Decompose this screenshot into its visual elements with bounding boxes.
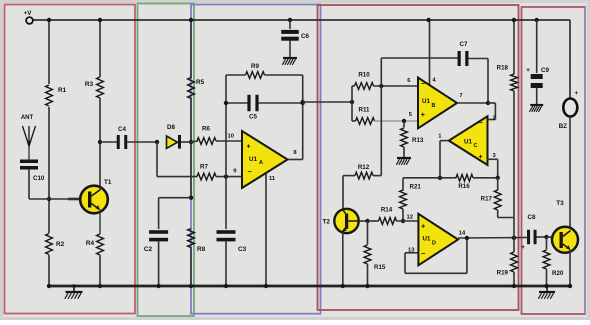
svg-text:10: 10 (228, 134, 234, 140)
svg-text:B: B (432, 103, 436, 109)
svg-text:R13: R13 (412, 137, 424, 144)
svg-text:+V: +V (24, 10, 33, 17)
svg-text:T3: T3 (556, 200, 564, 207)
svg-text:R20: R20 (552, 270, 564, 277)
svg-text:+: + (421, 224, 425, 231)
svg-text:C10: C10 (33, 175, 45, 182)
svg-text:A: A (259, 160, 263, 166)
svg-text:R7: R7 (200, 164, 208, 171)
svg-text:C: C (474, 143, 478, 149)
svg-text:ANT: ANT (21, 115, 34, 121)
svg-text:R8: R8 (197, 246, 206, 253)
svg-text:R1: R1 (58, 87, 67, 94)
svg-text:D: D (432, 241, 436, 247)
svg-text:+: + (526, 67, 530, 74)
svg-text:12: 12 (407, 215, 413, 221)
svg-text:C5: C5 (249, 114, 257, 121)
svg-text:T1: T1 (104, 179, 112, 186)
svg-text:C7: C7 (460, 41, 468, 48)
svg-text:C4: C4 (118, 126, 126, 133)
svg-text:U1: U1 (249, 156, 257, 163)
svg-text:+: + (575, 90, 579, 97)
svg-text:−: − (421, 81, 425, 88)
svg-text:BZ: BZ (559, 123, 567, 130)
svg-text:R6: R6 (202, 126, 210, 133)
svg-text:R3: R3 (85, 81, 94, 88)
svg-text:R5: R5 (196, 79, 205, 86)
svg-text:R19: R19 (497, 270, 509, 277)
svg-text:R2: R2 (56, 241, 65, 248)
svg-text:R18: R18 (497, 65, 509, 72)
svg-text:+: + (521, 244, 525, 251)
svg-text:U1: U1 (422, 98, 430, 105)
svg-text:R21: R21 (410, 184, 422, 191)
svg-text:+: + (421, 112, 425, 119)
svg-text:R17: R17 (481, 196, 493, 203)
svg-text:D8: D8 (167, 124, 175, 131)
svg-text:11: 11 (269, 176, 276, 182)
svg-text:R14: R14 (381, 207, 393, 214)
svg-text:C9: C9 (541, 67, 549, 74)
svg-text:−: − (478, 120, 482, 127)
svg-text:+: + (246, 144, 250, 151)
svg-text:C6: C6 (301, 33, 309, 40)
svg-text:R11: R11 (358, 107, 370, 114)
svg-text:+: + (478, 154, 482, 161)
svg-text:R4: R4 (86, 240, 95, 247)
svg-text:T2: T2 (323, 219, 331, 226)
svg-text:U1: U1 (464, 139, 472, 146)
svg-text:C8: C8 (528, 214, 536, 221)
svg-text:14: 14 (459, 231, 466, 237)
svg-text:R10: R10 (358, 72, 370, 79)
svg-text:U1: U1 (423, 236, 431, 243)
svg-text:R15: R15 (374, 264, 386, 271)
svg-text:R16: R16 (458, 183, 470, 190)
svg-text:−: − (421, 251, 425, 258)
svg-text:R9: R9 (251, 63, 259, 70)
svg-text:C2: C2 (144, 246, 153, 253)
svg-text:−: − (247, 169, 251, 176)
svg-text:R12: R12 (358, 164, 370, 171)
svg-text:7: 7 (459, 93, 462, 99)
svg-text:C3: C3 (238, 246, 247, 253)
svg-text:2: 2 (493, 116, 496, 122)
